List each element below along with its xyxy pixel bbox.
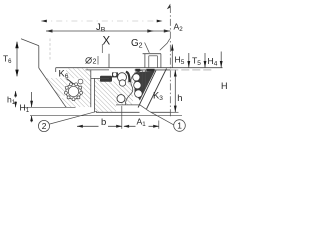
hole walls: [141, 70, 143, 88]
svg-text:H5: H5: [175, 55, 185, 67]
rail left face: [93, 78, 95, 112]
dim b line: [77, 125, 159, 127]
dim down arrow 3: [220, 52, 222, 68]
arrow up at centreline top: [167, 4, 171, 10]
ball upper right: [133, 74, 140, 81]
wire JB dimension line y=21: [41, 20, 163, 22]
dim H5 up arrow: [171, 45, 173, 68]
svg-text:2: 2: [42, 121, 47, 131]
rail groove curve: [125, 73, 134, 104]
ball lower left: [117, 95, 125, 103]
carriage lip inner face: [90, 70, 92, 107]
block left edge: [108, 54, 110, 68]
rail top-left chamfer: [135, 70, 143, 74]
hatch carriage wall: [81, 78, 91, 107]
left side vertical: [38, 46, 40, 68]
dim A1 arrows: [123, 125, 129, 128]
chamfer top-left: [21, 39, 39, 46]
svg-text:h: h: [177, 93, 182, 103]
svg-text:A2: A2: [174, 22, 184, 34]
dim down arrow 2: [204, 53, 206, 68]
dim T6 vertical: [16, 42, 18, 76]
svg-text:JB: JB: [96, 22, 106, 34]
svg-text:G2: G2: [131, 38, 143, 50]
dark bar left of hole top: [135, 69, 140, 72]
slant break line 2: [147, 69, 167, 110]
rail top extension to right: [170, 69, 211, 71]
dim down arrow 1: [188, 53, 190, 68]
lube hole label (diameter): [86, 58, 92, 64]
ext A1 left: [121, 106, 123, 129]
callout circle 2: [38, 120, 49, 131]
svg-text:T5: T5: [192, 56, 201, 68]
grease port circle: [78, 79, 83, 84]
svg-text:H: H: [221, 81, 228, 91]
arrowhead at centreline: [164, 29, 171, 32]
hatch carriage bottom bit: [60, 98, 81, 107]
carriage top surface + extension line: [56, 67, 223, 69]
rail bottom: [96, 111, 170, 113]
carriage lip thick curve: [126, 72, 130, 83]
carriage recess top line: [86, 69, 110, 71]
hatch rail mid: [109, 82, 134, 113]
dark bar right of hole top: [146, 69, 154, 72]
rail lower ledge: [116, 104, 140, 106]
leader callout 2: [50, 111, 97, 124]
V cone above near centreline: [160, 39, 170, 51]
ball below: [119, 80, 125, 86]
dark wedge between hole and break line: [135, 71, 155, 101]
slant break line 1: [138, 70, 156, 107]
svg-text:A1: A1: [137, 117, 147, 129]
svg-text:H4: H4: [208, 56, 218, 68]
ball upper left: [118, 73, 127, 82]
leader K6: [67, 79, 78, 88]
slant bottom connector: [140, 105, 149, 111]
arrowhead left of X line: [46, 29, 53, 32]
svg-text:1: 1: [177, 121, 182, 131]
hatch rail left body: [95, 79, 109, 112]
svg-text:2: 2: [93, 59, 97, 66]
dim h1: [15, 91, 17, 107]
rail shoulder top: [91, 77, 109, 79]
arrowhead mid (hole centre): [147, 29, 154, 32]
svg-text:b: b: [101, 117, 106, 128]
lower flank diagonal: [39, 68, 66, 107]
callout circle 1: [174, 120, 186, 132]
hatch carriage upper pocket: [66, 68, 91, 78]
leader callout 1: [149, 111, 173, 125]
hidden dashed edge: [49, 39, 51, 61]
svg-text:X: X: [103, 36, 111, 48]
X leader vertical: [101, 44, 103, 53]
hatch carriage wall left of bore: [47, 78, 69, 96]
dim H1: [31, 92, 33, 107]
svg-text:H1: H1: [20, 103, 30, 115]
arrowhead right of JB line: [157, 20, 163, 23]
centreline (vertical dash-dot): [169, 6, 171, 118]
wire X dimension line y=31: [46, 30, 170, 32]
svg-text:K3: K3: [153, 91, 163, 103]
ext A1 right: [158, 121, 160, 129]
dim h vertical: [174, 70, 176, 112]
leader G2: [145, 43, 150, 53]
base line: [30, 115, 182, 117]
rail top line: [135, 69, 171, 71]
rail bottom extension right: [170, 111, 178, 113]
svg-text:T6: T6: [3, 54, 12, 66]
arrowhead left of JB line: [41, 20, 47, 23]
carriage bottom line: [21, 106, 76, 108]
